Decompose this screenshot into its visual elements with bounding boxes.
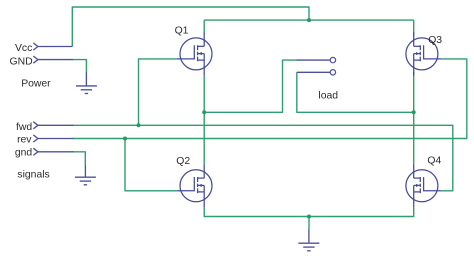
svg-text:gnd: gnd xyxy=(15,148,33,159)
svg-text:load: load xyxy=(318,90,338,101)
svg-text:GND: GND xyxy=(10,56,33,67)
svg-text:Q3: Q3 xyxy=(428,35,442,46)
svg-text:Vcc: Vcc xyxy=(15,43,32,54)
svg-text:fwd: fwd xyxy=(16,122,32,133)
svg-text:rev: rev xyxy=(17,135,32,146)
svg-text:Q1: Q1 xyxy=(175,25,189,36)
svg-text:Q2: Q2 xyxy=(176,156,190,167)
svg-text:Power: Power xyxy=(21,79,51,90)
svg-text:Q4: Q4 xyxy=(427,156,441,167)
svg-text:signals: signals xyxy=(17,169,49,180)
